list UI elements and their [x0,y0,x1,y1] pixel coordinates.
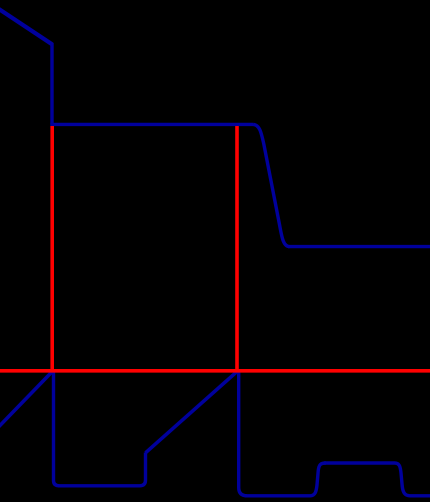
trace V1 low plateau y=246 [288,245,430,248]
trace V1 falling S-curve [254,124,290,246]
trace Vin red falling edge at x=237 [235,126,239,370]
trace I1 left low shelf y=485.8 [58,453,146,486]
trace V1 high plateau y=124 [50,123,253,126]
trace I1 right low shelf y=495.8 [245,463,326,496]
trace V1 falling diagonal (top-left) [0,8,52,44]
trace I1 mid rising diagonal [146,371,238,453]
trace Vin red pulse baseline y=370.4 full width [0,369,430,373]
trace I1 right vertical drop at x=238.7 [239,372,247,496]
trace V1 vertical drop at x=52 [50,43,53,125]
trace I1 left vertical drop at x=53.5 [54,372,60,486]
trace Vin red rising edge at x=52.2 [50,126,54,370]
trace I1 step plateau y=463 [324,463,430,496]
trace I1 rising diagonal (bottom-left) [0,371,53,427]
